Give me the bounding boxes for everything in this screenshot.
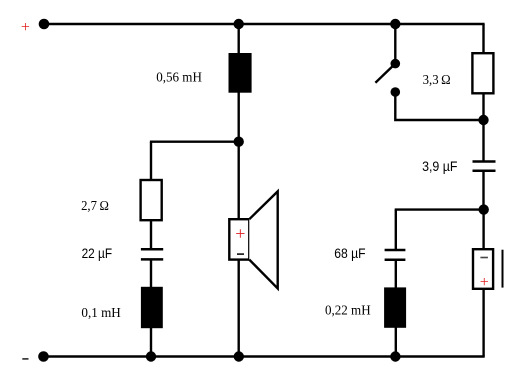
wire bottom rail [44,355,485,357]
wire switch upper vertical [394,24,396,64]
wire left branch upper vertical [150,142,152,250]
wire mid-right horizontal at node [395,208,484,210]
node junction top-right [390,19,400,29]
svg-text:22 µF: 22 µF [82,246,113,261]
svg-text:0,56 mH: 0,56 mH [156,71,202,86]
svg-text:+: + [21,19,30,36]
node junction top-middle [234,19,244,29]
switch S1 [375,59,400,97]
wire right column below 3,9uF cap [482,171,484,210]
wire middle branch vertical [237,24,239,357]
wire 68uF branch upper vertical [395,210,397,250]
capacitor 68 uF [334,246,405,261]
inductor 0,1 mH [81,287,162,328]
capacitor 22 uF [82,246,164,261]
svg-text:3,3 Ω: 3,3 Ω [423,73,451,88]
wire right column upper vertical [482,24,484,161]
node junction bottom 68uF branch [390,351,400,361]
label - input terminal [22,358,28,360]
resistor 3,3 Ohm [423,53,494,93]
svg-text:0,1 mH: 0,1 mH [81,306,120,321]
node junction middle branch [234,137,244,147]
wire left branch horizontal [150,140,239,142]
svg-text:68 µF: 68 µF [334,246,365,261]
wire left branch lower vertical [150,259,152,356]
node junction bottom middle branch [234,351,244,361]
terminal dot negative input [38,351,49,362]
node junction right column below resistor [478,115,488,125]
svg-text:3,9 µF: 3,9 µF [422,159,457,174]
inductor 0,22 mH [325,287,406,327]
capacitor 3,9 uF [422,159,495,174]
terminal dot positive input [39,19,50,30]
node junction mid-right [479,204,489,214]
svg-text:+: + [480,274,489,291]
wire top rail [44,23,485,25]
inductor 0,56 mH [156,53,251,93]
speaker tweeter [473,249,503,291]
resistor 2,7 Ohm [81,180,162,220]
svg-text:+: + [235,223,245,243]
speaker woofer [229,191,277,288]
wire 68uF branch lower vertical [395,260,397,357]
svg-text:2,7 Ω: 2,7 Ω [81,199,109,214]
svg-text:0,22 mH: 0,22 mH [325,304,371,319]
wire tweeter branch vertical [482,210,484,357]
wire switch lower L to resistor bottom node [395,92,483,120]
node junction bottom left branch [146,351,156,361]
